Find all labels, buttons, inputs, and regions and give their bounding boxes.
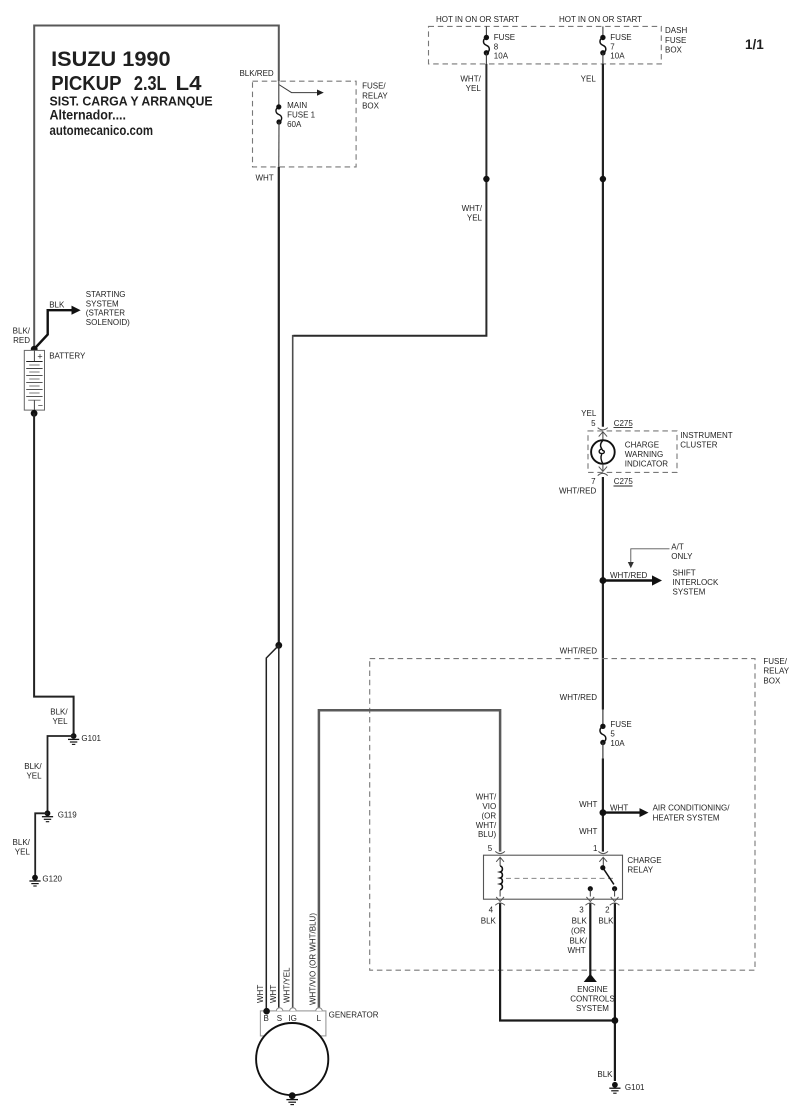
- label CHARGE WARNING INDICATOR: [625, 440, 668, 468]
- fuse 5 10A: [600, 724, 606, 746]
- dot battery positive: [31, 346, 38, 353]
- fuse 7 10A: [600, 26, 606, 64]
- generator body: [256, 1023, 328, 1095]
- branch arrow to fuse box interior: [279, 85, 324, 96]
- svg-text:AIR CONDITIONING/: AIR CONDITIONING/: [653, 804, 731, 813]
- svg-text:ISUZU 1990: ISUZU 1990: [51, 48, 171, 71]
- svg-text:S: S: [277, 1014, 282, 1023]
- wire battery positive loop to main fuse: [34, 26, 279, 350]
- wire YEL from fuse 7: [602, 64, 604, 427]
- svg-text:WHT: WHT: [579, 827, 597, 836]
- charge warning indicator lamp: [591, 440, 615, 464]
- svg-text:(OR: (OR: [571, 926, 586, 935]
- svg-text:SYSTEM: SYSTEM: [673, 588, 706, 597]
- svg-text:7: 7: [591, 477, 596, 486]
- svg-text:BLK/: BLK/: [13, 327, 31, 336]
- svg-text:G101: G101: [81, 734, 101, 743]
- svg-text:WHT: WHT: [269, 985, 278, 1003]
- svg-text:FUSE: FUSE: [610, 33, 631, 42]
- svg-text:5: 5: [488, 844, 493, 853]
- svg-text:G120: G120: [42, 875, 62, 884]
- wire WHT/YEL from fuse 8: [293, 64, 486, 336]
- label WHT/YEL lower: [462, 204, 483, 222]
- svg-text:SHIFT: SHIFT: [673, 569, 696, 578]
- wire BLK pin 4 to junction: [500, 904, 615, 1021]
- ground G119: [42, 810, 53, 821]
- label ENGINE CONTROLS SYSTEM: [570, 985, 614, 1013]
- svg-text:WHT/: WHT/: [476, 821, 497, 830]
- svg-text:CHARGE: CHARGE: [625, 440, 659, 449]
- label DASH FUSE BOX: [665, 26, 687, 54]
- svg-text:WHT/RED: WHT/RED: [560, 693, 598, 702]
- wire battery negative to G101: [34, 413, 74, 736]
- connector chevrons cluster pin 7: [598, 467, 608, 476]
- ground G120: [29, 875, 40, 886]
- svg-text:WHT/YEL: WHT/YEL: [282, 967, 291, 1003]
- svg-text:BLK: BLK: [597, 1070, 613, 1079]
- wire WHT/YEL to generator IG: [292, 335, 294, 1008]
- svg-text:L: L: [317, 1014, 322, 1023]
- ground G101 (left): [68, 733, 79, 744]
- svg-text:A/T: A/T: [671, 542, 684, 551]
- svg-text:G101: G101: [625, 1083, 645, 1092]
- connector chevron relay pin 3: [586, 897, 596, 905]
- relay switch: [588, 858, 618, 897]
- svg-text:YEL: YEL: [26, 772, 42, 781]
- svg-text:WHT/VIO (OR WHT/BLU): WHT/VIO (OR WHT/BLU): [309, 913, 318, 1005]
- A/T only pointer: [628, 549, 670, 569]
- charge relay box: [484, 855, 623, 899]
- generator connector strip: [260, 1008, 326, 1036]
- svg-text:B: B: [264, 1014, 269, 1023]
- svg-text:SOLENOID): SOLENOID): [86, 318, 130, 327]
- generator ground: [286, 1092, 298, 1104]
- svg-text:CONTROLS: CONTROLS: [570, 994, 614, 1003]
- title block: [50, 48, 213, 138]
- relay coil: [500, 858, 502, 897]
- label FUSE/RELAY BOX (bottom): [763, 657, 789, 686]
- svg-text:2: 2: [605, 906, 610, 915]
- svg-text:8: 8: [494, 42, 499, 51]
- wire WHT fuse 5 to relay: [602, 743, 604, 759]
- svg-text:WHT/RED: WHT/RED: [560, 647, 598, 656]
- svg-text:WHT/: WHT/: [476, 793, 497, 802]
- svg-text:STARTING: STARTING: [86, 290, 126, 299]
- svg-text:HEATER SYSTEM: HEATER SYSTEM: [653, 813, 720, 822]
- label STARTING SYSTEM (STARTER SOLENOID): [86, 290, 130, 327]
- svg-text:WHT/: WHT/: [462, 204, 483, 213]
- wire BLK pin 3 to engine controls: [589, 904, 591, 977]
- wire thin feed inside top box: [278, 81, 280, 106]
- svg-text:MAIN: MAIN: [287, 101, 307, 110]
- label SHIFT INTERLOCK SYSTEM: [673, 569, 719, 597]
- svg-text:CHARGE: CHARGE: [627, 856, 661, 865]
- svg-text:FUSE: FUSE: [665, 36, 686, 45]
- wire BLK to starting system: [34, 306, 80, 349]
- connector chevron relay pin 4: [495, 897, 505, 905]
- wire stub cluster bottom: [602, 464, 604, 472]
- svg-text:BOX: BOX: [763, 677, 781, 686]
- svg-text:Alternador....: Alternador....: [50, 107, 127, 123]
- svg-text:WHT: WHT: [256, 985, 265, 1003]
- wire WHT to S terminal: [278, 645, 280, 1008]
- svg-text:BLK: BLK: [598, 916, 614, 925]
- svg-text:YEL: YEL: [52, 717, 68, 726]
- svg-text:WHT/RED: WHT/RED: [610, 571, 648, 580]
- svg-text:BLK/RED: BLK/RED: [239, 69, 273, 78]
- svg-text:YEL: YEL: [467, 213, 483, 222]
- svg-text:CLUSTER: CLUSTER: [680, 441, 718, 450]
- arrow engine controls system: [584, 974, 597, 982]
- connector chevron relay pin 2: [610, 897, 620, 905]
- svg-text:ENGINE: ENGINE: [577, 985, 608, 994]
- svg-text:HOT IN ON OR START: HOT IN ON OR START: [436, 15, 519, 24]
- wire WHT to B terminal: [266, 645, 279, 1009]
- wire G101 to G119: [48, 736, 74, 813]
- svg-text:BOX: BOX: [362, 101, 380, 110]
- svg-text:−: −: [38, 401, 43, 411]
- arrow to air conditioning: [603, 808, 649, 817]
- label FUSE 8 10A: [494, 33, 515, 61]
- junction dot shift interlock: [600, 577, 607, 584]
- label FUSE 5 10A: [610, 720, 631, 748]
- arrow to shift interlock system: [603, 575, 662, 585]
- label BLK/YEL 1: [50, 708, 68, 726]
- svg-text:BLK/: BLK/: [569, 936, 587, 945]
- svg-text:FUSE 1: FUSE 1: [287, 111, 316, 120]
- connector chevrons cluster pin 5: [598, 428, 608, 437]
- svg-text:RED: RED: [13, 336, 30, 345]
- junction dot A/C: [600, 809, 607, 816]
- svg-text:INTERLOCK: INTERLOCK: [673, 578, 719, 587]
- svg-text:60A: 60A: [287, 120, 302, 129]
- svg-text:VIO: VIO: [482, 802, 496, 811]
- connector chevron relay pin 1: [598, 851, 608, 861]
- svg-text:FUSE/: FUSE/: [763, 657, 787, 666]
- label A/T ONLY: [671, 542, 693, 561]
- label BLK (OR BLK/WHT pin 3: [567, 916, 587, 955]
- wire thin below main fuse inside box: [278, 122, 280, 167]
- svg-text:C275: C275: [614, 419, 634, 428]
- wire WHT/RED cluster to relay pin 1: [602, 477, 604, 710]
- svg-text:(STARTER: (STARTER: [86, 309, 125, 318]
- junction splice on fuse 8 wire: [483, 176, 489, 182]
- svg-text:10A: 10A: [610, 52, 625, 61]
- svg-text:WHT: WHT: [255, 174, 273, 183]
- svg-text:DASH: DASH: [665, 26, 687, 35]
- svg-text:BLK: BLK: [49, 300, 65, 309]
- svg-text:YEL: YEL: [581, 409, 597, 418]
- svg-text:5: 5: [610, 729, 615, 738]
- svg-text:WHT: WHT: [579, 800, 597, 809]
- svg-text:INSTRUMENT: INSTRUMENT: [680, 431, 733, 440]
- svg-text:RELAY: RELAY: [627, 865, 653, 874]
- svg-text:BATTERY: BATTERY: [49, 352, 86, 361]
- svg-text:WARNING: WARNING: [625, 450, 663, 459]
- svg-text:YEL: YEL: [581, 75, 597, 84]
- dash fuse box: [429, 26, 662, 64]
- label FUSE/RELAY BOX (top): [362, 81, 388, 110]
- label AIR CONDITIONING/HEATER SYSTEM: [653, 804, 731, 823]
- wire G119 to G120: [35, 813, 47, 877]
- svg-text:10A: 10A: [494, 52, 509, 61]
- svg-text:BLK/: BLK/: [13, 838, 31, 847]
- svg-text:G119: G119: [58, 811, 78, 820]
- svg-text:FUSE/: FUSE/: [362, 81, 386, 90]
- dot battery negative: [31, 410, 38, 417]
- label CHARGE RELAY: [627, 856, 661, 875]
- label MAIN FUSE 1 60A: [287, 101, 316, 129]
- dot B terminal: [263, 1008, 270, 1015]
- relay dashed link: [506, 877, 616, 879]
- svg-text:RELAY: RELAY: [763, 667, 789, 676]
- wire BLK pin 2 to ground: [614, 904, 616, 1082]
- wire WHT/VIO generator L to relay pin 5: [319, 710, 500, 1008]
- fuse/relay box (bottom) dashed: [370, 659, 755, 971]
- svg-text:automecanico.com: automecanico.com: [50, 122, 154, 138]
- terminal labels B S IG L: [264, 1014, 322, 1023]
- svg-text:BOX: BOX: [665, 45, 683, 54]
- svg-text:IG: IG: [288, 1014, 296, 1023]
- connector label C275 (bottom): [614, 477, 634, 486]
- svg-text:7: 7: [610, 42, 615, 51]
- svg-text:FUSE: FUSE: [610, 720, 631, 729]
- svg-text:YEL: YEL: [466, 84, 482, 93]
- svg-text:SYSTEM: SYSTEM: [576, 1004, 609, 1013]
- svg-text:BLK: BLK: [572, 916, 588, 925]
- svg-text:ONLY: ONLY: [671, 552, 693, 561]
- svg-text:HOT IN ON OR START: HOT IN ON OR START: [559, 15, 642, 24]
- svg-text:L4: L4: [176, 72, 203, 95]
- svg-text:BLK/: BLK/: [50, 708, 68, 717]
- label WHT/VIO (OR WHT/BLU) at relay: [476, 793, 497, 840]
- label BLK/RED at battery: [13, 327, 31, 345]
- instrument cluster dashed box: [588, 431, 677, 473]
- svg-text:(OR: (OR: [482, 811, 497, 820]
- battery: [24, 350, 44, 410]
- svg-text:FUSE: FUSE: [494, 33, 515, 42]
- connector label C275 (top): [614, 419, 634, 428]
- svg-text:INDICATOR: INDICATOR: [625, 459, 668, 468]
- label BLK/YEL 2: [24, 762, 42, 780]
- svg-text:10A: 10A: [610, 739, 625, 748]
- svg-text:5: 5: [591, 419, 596, 428]
- svg-text:YEL: YEL: [15, 848, 31, 857]
- junction splice on fuse 7 wire: [600, 176, 606, 182]
- fuse 8 10A: [483, 26, 489, 64]
- svg-text:BLU): BLU): [478, 830, 497, 839]
- svg-text:RELAY: RELAY: [362, 91, 388, 100]
- wire stub cluster top: [602, 432, 604, 441]
- svg-text:2.3L: 2.3L: [134, 72, 167, 95]
- svg-text:1/1: 1/1: [745, 37, 764, 52]
- label BLK/YEL 3: [13, 838, 31, 856]
- svg-text:+: +: [37, 352, 42, 362]
- svg-text:WHT/RED: WHT/RED: [559, 487, 597, 496]
- connector chevron relay pin 5: [495, 851, 505, 861]
- svg-text:SYSTEM: SYSTEM: [86, 299, 119, 308]
- main fuse 1 60A: [276, 104, 282, 124]
- svg-text:BLK: BLK: [481, 916, 497, 925]
- svg-text:PICKUP: PICKUP: [51, 72, 121, 95]
- label WHT/YEL upper: [460, 75, 481, 93]
- svg-text:WHT/: WHT/: [460, 75, 481, 84]
- junction dot pins 2-4: [612, 1017, 619, 1024]
- svg-text:3: 3: [579, 906, 584, 915]
- svg-text:C275: C275: [614, 477, 634, 486]
- ground G101 (right): [609, 1082, 620, 1093]
- junction dot main to B branch: [275, 642, 282, 649]
- svg-text:WHT: WHT: [567, 946, 585, 955]
- svg-text:GENERATOR: GENERATOR: [329, 1010, 379, 1019]
- svg-text:WHT: WHT: [610, 803, 628, 812]
- label FUSE 7 10A: [610, 33, 631, 61]
- svg-text:4: 4: [489, 906, 494, 915]
- wire WHT main vertical: [278, 167, 280, 645]
- svg-text:BLK/: BLK/: [24, 762, 42, 771]
- svg-text:1: 1: [593, 844, 598, 853]
- fuse/relay box (top): [253, 81, 357, 167]
- label INSTRUMENT CLUSTER: [680, 431, 733, 450]
